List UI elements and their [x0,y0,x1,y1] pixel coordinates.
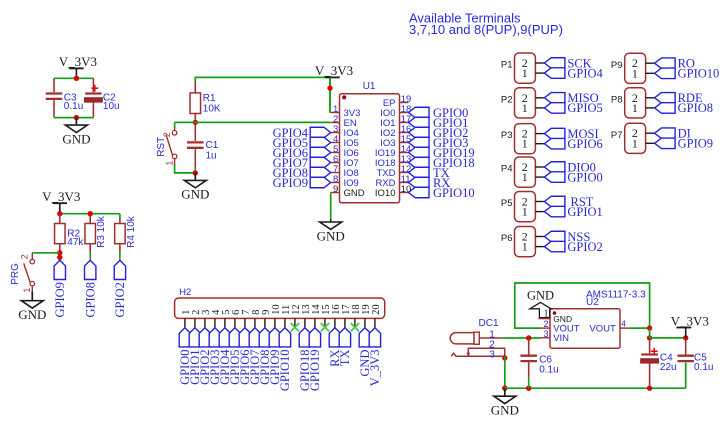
svg-text:47k: 47k [67,237,84,248]
svg-text:0.1u: 0.1u [64,101,83,112]
svg-text:GPIO2: GPIO2 [113,282,127,317]
svg-text:P1: P1 [501,60,513,71]
svg-text:VIN: VIN [553,333,569,344]
svg-text:2: 2 [20,254,30,259]
svg-text:GPIO8: GPIO8 [84,282,98,317]
svg-text:GND: GND [181,187,209,202]
svg-text:P6: P6 [501,233,513,244]
svg-text:P8: P8 [611,94,623,105]
svg-text:1: 1 [164,161,174,166]
svg-text:1u: 1u [206,150,217,161]
svg-text:TX: TX [338,350,352,367]
svg-text:GPIO8: GPIO8 [678,101,713,115]
svg-text:C1: C1 [206,140,219,151]
svg-text:GPIO9: GPIO9 [678,137,713,151]
svg-text:0.1u: 0.1u [539,365,558,376]
svg-text:1: 1 [522,101,528,115]
svg-text:4: 4 [621,319,626,329]
svg-text:GPIO19: GPIO19 [308,350,322,392]
svg-text:GPIO6: GPIO6 [567,137,602,151]
svg-text:1: 1 [632,136,638,150]
svg-text:1: 1 [632,101,638,115]
svg-text:P2: P2 [501,94,513,105]
svg-text:GPIO10: GPIO10 [678,67,720,81]
svg-text:GPIO9: GPIO9 [273,176,308,190]
svg-text:V_3V3: V_3V3 [671,313,709,328]
svg-text:R1: R1 [203,93,216,104]
svg-text:22u: 22u [660,362,677,373]
svg-text:2: 2 [162,132,172,137]
svg-text:P3: P3 [501,130,513,141]
svg-text:V_3V3: V_3V3 [59,54,97,69]
svg-text:GPIO4: GPIO4 [567,66,603,80]
svg-text:3,7,10 and 8(PUP),9(PUP): 3,7,10 and 8(PUP),9(PUP) [409,22,563,37]
svg-text:DC1: DC1 [479,318,499,329]
svg-text:GPIO1: GPIO1 [567,205,602,219]
svg-text:RST: RST [156,137,167,157]
svg-text:V_3V3: V_3V3 [368,350,382,387]
svg-text:GPIO5: GPIO5 [567,101,602,115]
svg-text:1: 1 [632,66,638,80]
svg-text:C6: C6 [539,354,552,365]
svg-text:GND: GND [18,307,46,322]
svg-text:V_3V3: V_3V3 [315,63,353,78]
svg-text:GPIO2: GPIO2 [567,240,602,254]
svg-text:GND: GND [553,314,572,324]
svg-text:P5: P5 [501,198,513,209]
svg-text:1: 1 [22,288,32,293]
svg-text:20: 20 [371,304,382,315]
svg-text:9: 9 [333,184,338,195]
svg-text:2: 2 [543,319,548,329]
svg-text:P4: P4 [501,164,513,175]
svg-text:GND: GND [527,288,554,302]
svg-text:R4 10k: R4 10k [126,215,137,248]
svg-text:H2: H2 [179,287,191,298]
svg-text:GPIO10: GPIO10 [278,350,292,392]
svg-text:GPIO9: GPIO9 [53,282,67,317]
svg-text:U1: U1 [363,81,376,92]
svg-text:GPIO10: GPIO10 [433,186,475,200]
svg-text:10K: 10K [203,104,221,115]
svg-text:P7: P7 [611,130,623,141]
svg-text:0.1u: 0.1u [694,362,713,373]
svg-text:V_3V3: V_3V3 [42,189,80,204]
svg-text:3: 3 [543,329,548,339]
svg-text:VOUT: VOUT [589,324,616,335]
svg-text:U2: U2 [586,297,599,308]
svg-text:GPIO0: GPIO0 [567,170,602,184]
svg-text:1: 1 [522,137,528,151]
svg-text:1: 1 [522,240,528,254]
svg-text:R3 10k: R3 10k [96,215,107,248]
svg-text:1: 1 [522,205,528,219]
svg-text:1: 1 [522,66,528,80]
svg-text:3: 3 [489,349,495,360]
svg-text:IO10: IO10 [375,188,396,199]
svg-text:P9: P9 [611,60,623,71]
svg-text:GND: GND [317,228,345,243]
svg-text:10u: 10u [103,101,120,112]
svg-text:GND: GND [62,131,90,146]
svg-text:PRG: PRG [10,263,21,285]
svg-text:1: 1 [522,170,528,184]
svg-text:GND: GND [344,188,365,199]
svg-text:GND: GND [491,403,519,418]
